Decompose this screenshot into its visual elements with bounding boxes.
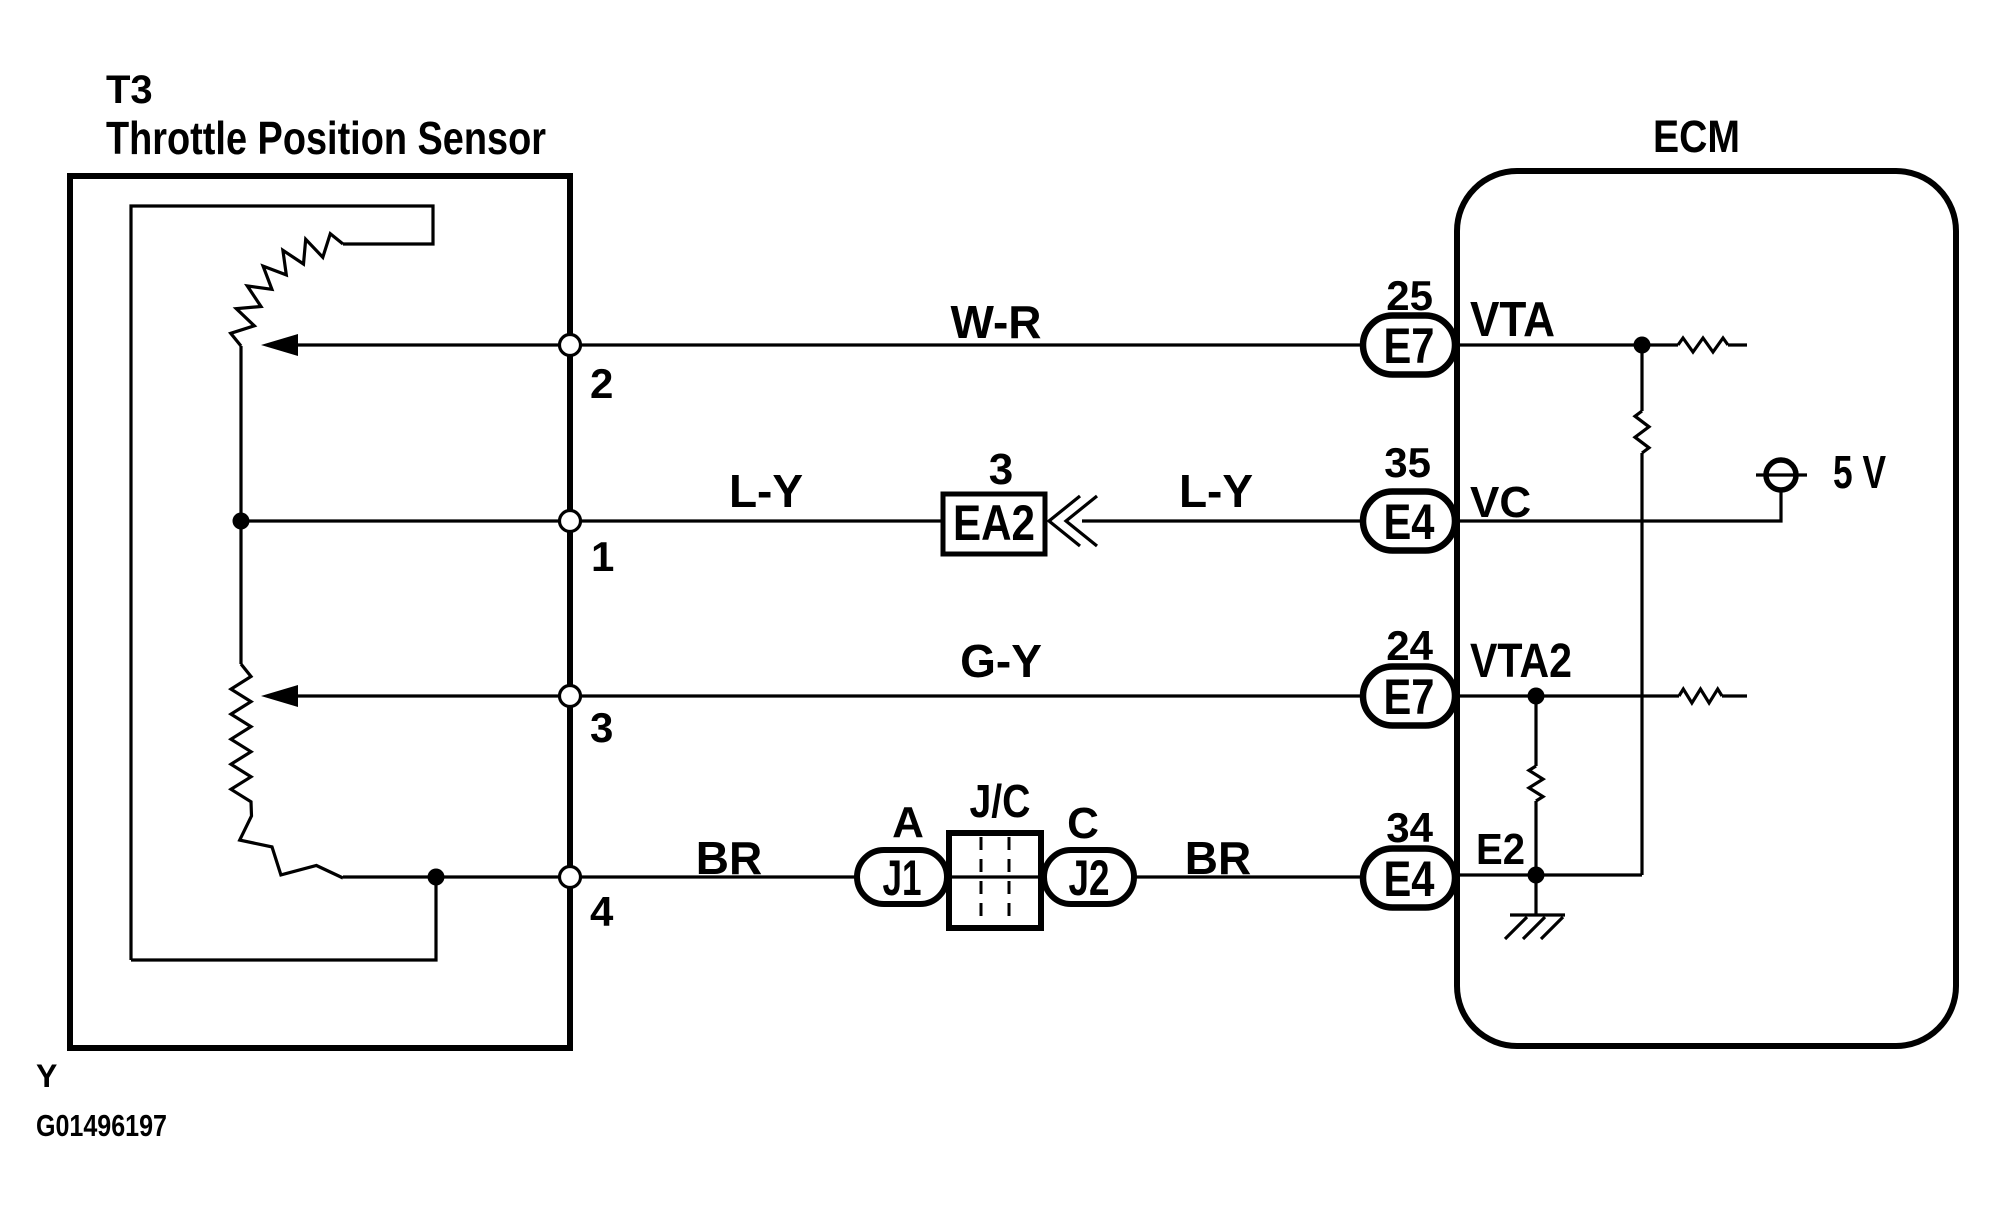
junction connector J/C — [949, 833, 1041, 928]
svg-text:4: 4 — [590, 888, 614, 935]
resistor: potentiometer track upper arc — [231, 234, 343, 346]
svg-text:3: 3 — [590, 704, 613, 751]
junction VTA node — [1634, 337, 1651, 354]
wire 2 W-R (pin 2 to ECM pin 25) — [296, 343, 1363, 346]
svg-text:G01496197: G01496197 — [36, 1108, 167, 1143]
svg-text:E4: E4 — [1384, 851, 1435, 907]
connector E7 pin 24 — [1363, 667, 1455, 726]
wire through J/C — [949, 875, 1041, 878]
junction: track-to-return — [428, 869, 445, 886]
svg-text:E2: E2 — [1476, 825, 1525, 874]
svg-text:EA2: EA2 — [953, 495, 1035, 551]
svg-text:J/C: J/C — [970, 775, 1031, 827]
svg-text:E7: E7 — [1384, 669, 1435, 725]
svg-text:E4: E4 — [1384, 494, 1435, 550]
svg-text:J1: J1 — [883, 850, 922, 906]
svg-text:VTA2: VTA2 — [1470, 635, 1572, 688]
resistor: potentiometer track lower arc — [231, 664, 343, 878]
connector E4 pin 34 — [1363, 849, 1455, 908]
ECM box — [1457, 171, 1956, 1046]
svg-text:A: A — [892, 798, 924, 847]
connector E7 pin 25 — [1363, 316, 1455, 375]
wire ladder down to E2 — [1640, 453, 1643, 875]
svg-text:5 V: 5 V — [1833, 446, 1886, 498]
wire 3 G-Y (pin 3 to ECM pin 24) — [296, 694, 1363, 697]
svg-text:1: 1 — [591, 533, 614, 580]
svg-text:VTA: VTA — [1470, 293, 1555, 347]
connector J1 pin A — [857, 850, 947, 904]
resistor R (VTA2 pull) — [1679, 689, 1722, 703]
node pin 4 — [560, 867, 581, 888]
svg-text:35: 35 — [1384, 439, 1431, 486]
wiper arrow wire 3 — [261, 685, 298, 707]
sensor T3 box — [70, 176, 570, 1048]
svg-text:2: 2 — [590, 360, 613, 407]
svg-text:3: 3 — [989, 445, 1013, 494]
wire VTA inside ECM — [1457, 343, 1678, 346]
svg-text:34: 34 — [1386, 804, 1433, 851]
junction E2 node — [1528, 867, 1545, 884]
svg-text:W-R: W-R — [950, 296, 1041, 348]
5V supply terminal — [1766, 460, 1796, 490]
junction VTA2 node — [1528, 688, 1545, 705]
junction: wiper tap — [233, 513, 250, 530]
wire 1 inside sensor (wiper to pin 1) — [241, 519, 570, 522]
wire E2 inside ECM — [1457, 873, 1642, 876]
node pin 1 — [560, 511, 581, 532]
wire 1 L-Y (pin 1 to connector EA2) — [570, 519, 943, 522]
resistor (VTA2 to E2) — [1529, 766, 1543, 801]
wire VTA node down — [1640, 345, 1643, 411]
wire: potentiometer track middle segment — [239, 346, 242, 664]
svg-text:Y: Y — [36, 1058, 57, 1094]
svg-text:Throttle Position Sensor: Throttle Position Sensor — [106, 112, 546, 164]
svg-text:J2: J2 — [1069, 850, 1110, 906]
svg-text:24: 24 — [1386, 622, 1433, 669]
svg-text:ECM: ECM — [1653, 111, 1740, 162]
svg-text:BR: BR — [696, 832, 762, 884]
wire: bottom return drop — [131, 877, 436, 960]
svg-text:25: 25 — [1386, 272, 1433, 319]
svg-text:L-Y: L-Y — [1179, 465, 1253, 517]
wire VTA2 node down — [1534, 696, 1537, 766]
svg-text:C: C — [1067, 799, 1099, 848]
svg-text:L-Y: L-Y — [729, 465, 803, 517]
wire VC inside ECM — [1457, 490, 1781, 521]
wiper arrow wire 2 — [261, 334, 298, 356]
connector E4 pin 35 — [1363, 492, 1455, 551]
svg-text:BR: BR — [1185, 832, 1251, 884]
connector J2 pin C — [1044, 850, 1134, 904]
node pin 3 — [560, 686, 581, 707]
wire: track end to pin 4 — [343, 875, 570, 878]
ground — [1534, 875, 1537, 915]
wire: sensor inner loop (top + left + bottom return) — [131, 206, 433, 960]
resistor R (VTA pull) — [1678, 338, 1728, 352]
wire 4 BR (pin 4 to ECM pin 34) — [570, 875, 1363, 878]
chevron male-female marker — [1049, 496, 1080, 546]
svg-text:E7: E7 — [1384, 318, 1435, 374]
node pin 2 — [560, 335, 581, 356]
svg-text:G-Y: G-Y — [960, 635, 1042, 687]
svg-text:T3: T3 — [106, 68, 153, 112]
resistor (VTA to E2 ladder) — [1635, 411, 1649, 453]
connector EA2 pin 3 — [943, 494, 1045, 554]
wire 1 L-Y (EA2 to ECM pin 35) — [1082, 519, 1363, 522]
wire VTA2 inside ECM — [1457, 694, 1679, 697]
